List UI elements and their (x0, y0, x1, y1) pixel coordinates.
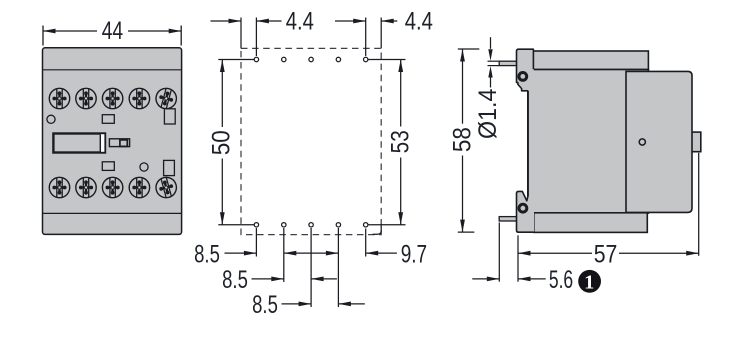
front latch outline (109, 139, 129, 147)
front view top band line (43, 69, 182, 71)
front small hole lower right (140, 163, 148, 171)
dim 5.6 outer arrow (487, 277, 500, 282)
side view panel button hole (639, 139, 645, 145)
dim 58 line upper (462, 49, 464, 124)
side view top pin (499, 61, 517, 65)
screw terminal top row #5 (154, 86, 179, 111)
dim 44 shaft right (128, 30, 181, 32)
dim 57 arrow left (518, 251, 531, 256)
dim 57 right extension (698, 153, 700, 256)
side view mounting flange top fill (517, 49, 534, 91)
dim 9.7 right arrow (366, 251, 379, 256)
dim 44 extension left (42, 26, 44, 46)
side view bottom band (534, 213, 648, 233)
dim 8.5 third shaft (282, 303, 312, 305)
dim 57 shaft right (619, 252, 699, 254)
dim dia1.4 upper leader (490, 37, 492, 49)
dim 50 line lower (221, 159, 223, 225)
front auxiliary slot upper right (164, 109, 175, 124)
screw terminal bottom row #3 (102, 177, 122, 197)
dim 4.4 right outer shaft (335, 20, 366, 22)
screw terminal bottom row #5 (154, 175, 179, 200)
screw terminal bottom row #4 (129, 177, 149, 197)
dim 4.4 left ext from hole1 (255, 18, 257, 57)
dim 50 arrow down (220, 212, 225, 225)
dim 53 line upper (400, 60, 402, 127)
dim 8.5 second arrow (271, 277, 284, 282)
dim 53 bottom extension (368, 224, 406, 226)
side view main body (528, 69, 649, 213)
front small window lower middle (102, 162, 114, 171)
dim 4.4 right inner shaft (381, 20, 397, 22)
front label window (53, 134, 105, 153)
dim 8.5 first arrow (244, 251, 257, 256)
dim 9.7 right shaft (366, 252, 397, 254)
dim dia1.4 arrow up (488, 66, 492, 78)
dim 4.4 left arrow a (229, 19, 242, 24)
svg-text:57: 57 (594, 240, 618, 268)
side view mounting flange bottom fill (517, 191, 535, 232)
dim 8.5 first counter shaft (284, 252, 311, 254)
drill hole bottom row #1 (254, 223, 258, 227)
dim 57 left extension (517, 235, 519, 281)
screw terminal bottom row #2 (76, 177, 96, 197)
dim 8.5 first shaft (225, 252, 257, 254)
note marker 1 circle (578, 270, 601, 293)
ext line below hole4 (337, 228, 339, 307)
dim 57 shaft left (518, 252, 592, 254)
drill hole bottom row #3 (309, 223, 313, 227)
drill hole top row #5 (364, 57, 368, 61)
front latch knob (120, 140, 127, 147)
dim 58 top extension (458, 48, 480, 50)
front auxiliary slot lower right (164, 160, 175, 175)
dim 58 arrow up (460, 49, 465, 62)
dim 53 top extension (368, 59, 406, 61)
dim 9.7 left arrow (326, 251, 339, 256)
dim 4.4 right ext from dashed edge (380, 18, 382, 49)
svg-text:4.4: 4.4 (286, 6, 314, 35)
dim 44 extension right (180, 26, 182, 46)
screw terminal top row #2 (76, 88, 96, 108)
dim 58 arrow down (460, 220, 465, 233)
svg-text:8.5: 8.5 (222, 265, 248, 293)
drill hole bottom row #2 (282, 223, 286, 227)
drill hole bottom row #4 (336, 223, 340, 227)
dim 4.4 left arrow b (256, 19, 269, 24)
svg-text:9.7: 9.7 (401, 240, 427, 268)
dim 58 bottom extension (458, 231, 475, 233)
dim 4.4 right arrow a (353, 19, 366, 24)
front view body (43, 48, 182, 235)
drill hole top row #1 (254, 57, 258, 61)
ext line below hole3 (310, 228, 312, 307)
dim 4.4 left ext from dashed edge (240, 18, 242, 49)
dim 5.6 inner arrow (518, 277, 531, 282)
front small window upper middle (102, 115, 114, 124)
side view bottom pin (499, 217, 517, 221)
drill hole top row #3 (309, 57, 313, 61)
side view flange screw top (519, 73, 527, 81)
svg-text:5.6: 5.6 (549, 265, 573, 294)
svg-text:50: 50 (208, 130, 236, 155)
side view front panel (626, 71, 692, 212)
drill hole top row #4 (336, 57, 340, 61)
dim 57 arrow right (686, 251, 699, 256)
dim 58 line lower (462, 156, 464, 233)
dim 44 arrow left (43, 29, 56, 34)
front small hole upper left (47, 115, 55, 123)
svg-text:53: 53 (386, 130, 414, 153)
dim 50 arrow up (220, 60, 225, 73)
svg-text:44: 44 (102, 17, 123, 45)
dim 4.4 left inner shaft (256, 20, 281, 22)
dim 5.6 outer shaft (472, 278, 499, 280)
ext line below hole1 (255, 228, 257, 257)
ext line below hole5 (365, 229, 367, 257)
dim 44 arrow right (169, 29, 182, 34)
dim dia1.4 tick top (488, 60, 500, 62)
dim dia1.4 lower leader (490, 78, 492, 88)
dim 5.6 pin extension (498, 223, 500, 282)
svg-text:Ø1.4: Ø1.4 (474, 89, 502, 139)
screw terminal top row #1 (49, 88, 69, 108)
side view rail tab right (690, 132, 701, 152)
dim 50 bottom extension (218, 224, 254, 226)
front label window slider slot line (99, 134, 101, 152)
dim 8.5 third counter arrow (338, 302, 351, 307)
dim 53 line lower (400, 158, 402, 225)
dim 8.5 third counter shaft (338, 303, 364, 305)
dim 50 top extension (218, 59, 254, 61)
dim 50 line upper (221, 60, 223, 128)
svg-text:4.4: 4.4 (405, 6, 433, 35)
side view top band (533, 51, 648, 69)
front view bottom band line (43, 212, 182, 214)
dim 44 shaft left (43, 30, 97, 32)
dim 53 arrow down (398, 212, 403, 225)
drill plan dashed outline (241, 48, 381, 234)
dim 8.5 second counter shaft (311, 278, 337, 280)
svg-text:58: 58 (448, 127, 476, 152)
dim 8.5 second shaft (252, 278, 284, 280)
dim 9.7 left shaft (311, 252, 338, 254)
screw terminal top row #4 (129, 88, 149, 108)
dim 8.5 first counter arrow (284, 251, 297, 256)
side view mounting flange top outline (517, 49, 534, 91)
drill hole top row #2 (282, 57, 286, 61)
dim 53 arrow up (398, 60, 403, 73)
drill hole bottom row #5 (364, 223, 368, 227)
svg-text:1: 1 (584, 272, 594, 294)
dim dia1.4 tick bottom (488, 65, 500, 67)
dim 5.6 inner shaft (518, 278, 546, 280)
dim 8.5 third arrow (299, 302, 312, 307)
dim 4.4 right arrow b (381, 19, 394, 24)
svg-text:8.5: 8.5 (194, 240, 220, 268)
dim dia1.4 arrow down (488, 49, 492, 61)
dim 8.5 second counter arrow (311, 277, 324, 282)
front label window slider strip (101, 134, 105, 152)
side view flange screw bottom (519, 204, 527, 212)
ext line below hole2 (283, 228, 285, 282)
screw terminal bottom row #1 (49, 177, 69, 197)
svg-text:8.5: 8.5 (252, 290, 278, 318)
drill plan corner jog at hole5 (373, 225, 382, 234)
dim 4.4 left outer shaft (211, 20, 242, 22)
dim 4.4 right ext from hole5 (365, 18, 367, 57)
screw terminal top row #3 (102, 88, 122, 108)
side view mounting flange bottom outline (517, 91, 534, 232)
